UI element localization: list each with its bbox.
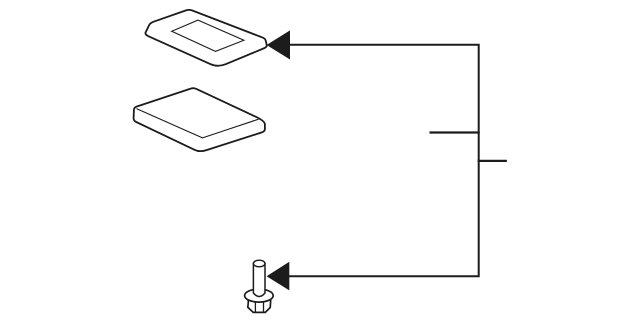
arrow to bolt	[267, 262, 290, 291]
bolt hex facet lines	[255, 302, 263, 312]
callout tick left	[430, 131, 480, 133]
bolt shaft top ellipse	[253, 260, 265, 267]
filter pad outer outline	[134, 88, 265, 151]
filter pad top-face front edges	[137, 109, 259, 138]
callout tick right	[478, 160, 507, 162]
bolt flange washer	[245, 289, 274, 302]
bolt shaft	[253, 264, 265, 297]
leader line from gasket arrow to bolt arrow	[289, 45, 479, 277]
gasket seal inner hole	[172, 20, 244, 51]
bolt hex head	[248, 298, 271, 313]
gasket seal outer outline	[145, 10, 266, 66]
arrow to gasket	[267, 30, 290, 59]
